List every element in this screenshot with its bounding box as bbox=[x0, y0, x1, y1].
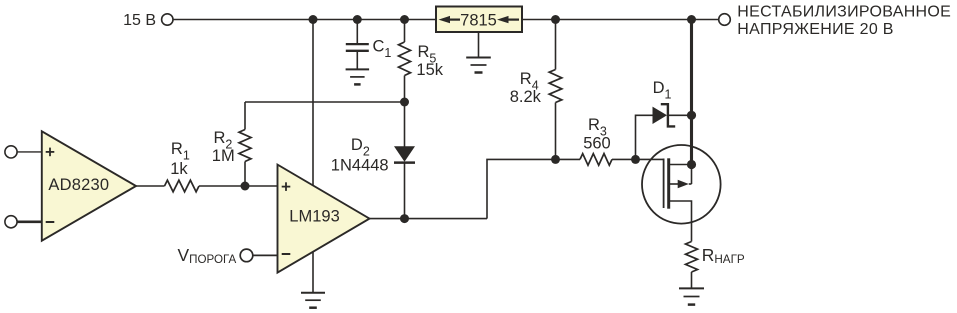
svg-text:VПОРОГА: VПОРОГА bbox=[178, 245, 237, 266]
source lead bbox=[669, 164, 692, 166]
op-amp U2 LM193 bbox=[278, 165, 370, 273]
svg-text:15 В: 15 В bbox=[123, 12, 156, 29]
wire 7815 output rail to 20V terminal bbox=[522, 19, 719, 21]
transistor Q1 p-channel MOSFET bbox=[636, 145, 721, 242]
capacitor C1 bbox=[346, 20, 392, 70]
regulator 7815 bbox=[436, 7, 522, 33]
drain lead bbox=[669, 201, 692, 242]
svg-text:LM193: LM193 bbox=[289, 208, 339, 226]
node D1 cathode on source rail bbox=[687, 111, 696, 120]
node rail / R4 bbox=[551, 15, 560, 24]
node D2 cathode / comparator output bbox=[400, 214, 409, 223]
svg-text:1N4448: 1N4448 bbox=[331, 156, 389, 174]
node rail / C1 bbox=[353, 15, 362, 24]
arrow into 7815 output (pointing left) bbox=[497, 16, 519, 23]
resistor R5 15k bbox=[399, 20, 444, 103]
wire AD8230 output to R1 bbox=[136, 185, 165, 187]
diode D2 1N4448 bbox=[331, 102, 415, 219]
svg-text:RНАГР: RНАГР bbox=[702, 245, 745, 266]
diode D1 zener bbox=[636, 79, 692, 159]
svg-text:D1: D1 bbox=[653, 79, 672, 102]
ground below 7815 bbox=[466, 32, 491, 73]
svg-text:AD8230: AD8230 bbox=[48, 176, 109, 194]
terminal 15V input bbox=[123, 12, 173, 29]
wire output up to gate drive row bbox=[487, 159, 580, 218]
resistor R1 1k bbox=[165, 140, 200, 192]
wire R1 to LM193 noninverting input bbox=[199, 185, 278, 187]
resistor R2 1M bbox=[212, 102, 251, 186]
ground below LM193 bbox=[301, 293, 325, 308]
node R4 bottom / gate drive bbox=[551, 155, 560, 164]
svg-text:8.2k: 8.2k bbox=[510, 88, 542, 106]
node source / body tie bbox=[687, 160, 696, 169]
node rail / LM193 supply bbox=[309, 15, 318, 24]
wire R2 top to R5/D2 node bbox=[245, 101, 405, 103]
terminal AD8230 noninverting input bbox=[5, 146, 42, 158]
svg-text:7815: 7815 bbox=[460, 11, 497, 29]
terminal V threshold bbox=[178, 245, 278, 266]
svg-text:560: 560 bbox=[583, 134, 611, 152]
ground below R load bbox=[679, 288, 704, 304]
gate bar bbox=[663, 159, 665, 209]
channel bar bbox=[667, 158, 670, 208]
svg-text:НЕСТАБИЛИЗИРОВАННОЕ: НЕСТАБИЛИЗИРОВАННОЕ bbox=[737, 3, 951, 20]
node R1 / R2 junction bbox=[241, 182, 250, 191]
terminal unregulated 20V bbox=[719, 3, 951, 37]
wire LM193 V+ supply bbox=[312, 20, 314, 186]
body arrow bbox=[669, 183, 680, 185]
op-amp U1 AD8230 bbox=[42, 131, 136, 240]
svg-text:1M: 1M bbox=[212, 147, 235, 165]
svg-text:1k: 1k bbox=[170, 160, 188, 178]
arrow into 7815 input (pointing left) bbox=[439, 16, 461, 23]
node rail / MOSFET source branch bbox=[687, 15, 696, 24]
resistor R load bbox=[686, 242, 745, 289]
wire LM193 V- to ground bbox=[312, 252, 314, 293]
node R5 / D2 / R2 feedback bbox=[400, 98, 409, 107]
wire LM193 output bbox=[370, 218, 488, 220]
node R3 / D1 anode / gate bbox=[631, 155, 640, 164]
wire 15V rail to 7815 input bbox=[173, 19, 436, 21]
svg-text:D2: D2 bbox=[351, 136, 370, 159]
resistor R4 8.2k bbox=[510, 20, 562, 160]
resistor R3 560 bbox=[580, 116, 636, 165]
wire gate lead bbox=[636, 158, 664, 160]
wire thick source rail bbox=[690, 20, 693, 165]
svg-text:15k: 15k bbox=[416, 61, 443, 79]
svg-text:C1: C1 bbox=[373, 38, 392, 61]
svg-text:НАПРЯЖЕНИЕ 20 В: НАПРЯЖЕНИЕ 20 В bbox=[737, 21, 893, 38]
node rail / R5 bbox=[400, 15, 409, 24]
ground below C1 bbox=[346, 69, 370, 84]
terminal AD8230 inverting input bbox=[5, 216, 42, 228]
